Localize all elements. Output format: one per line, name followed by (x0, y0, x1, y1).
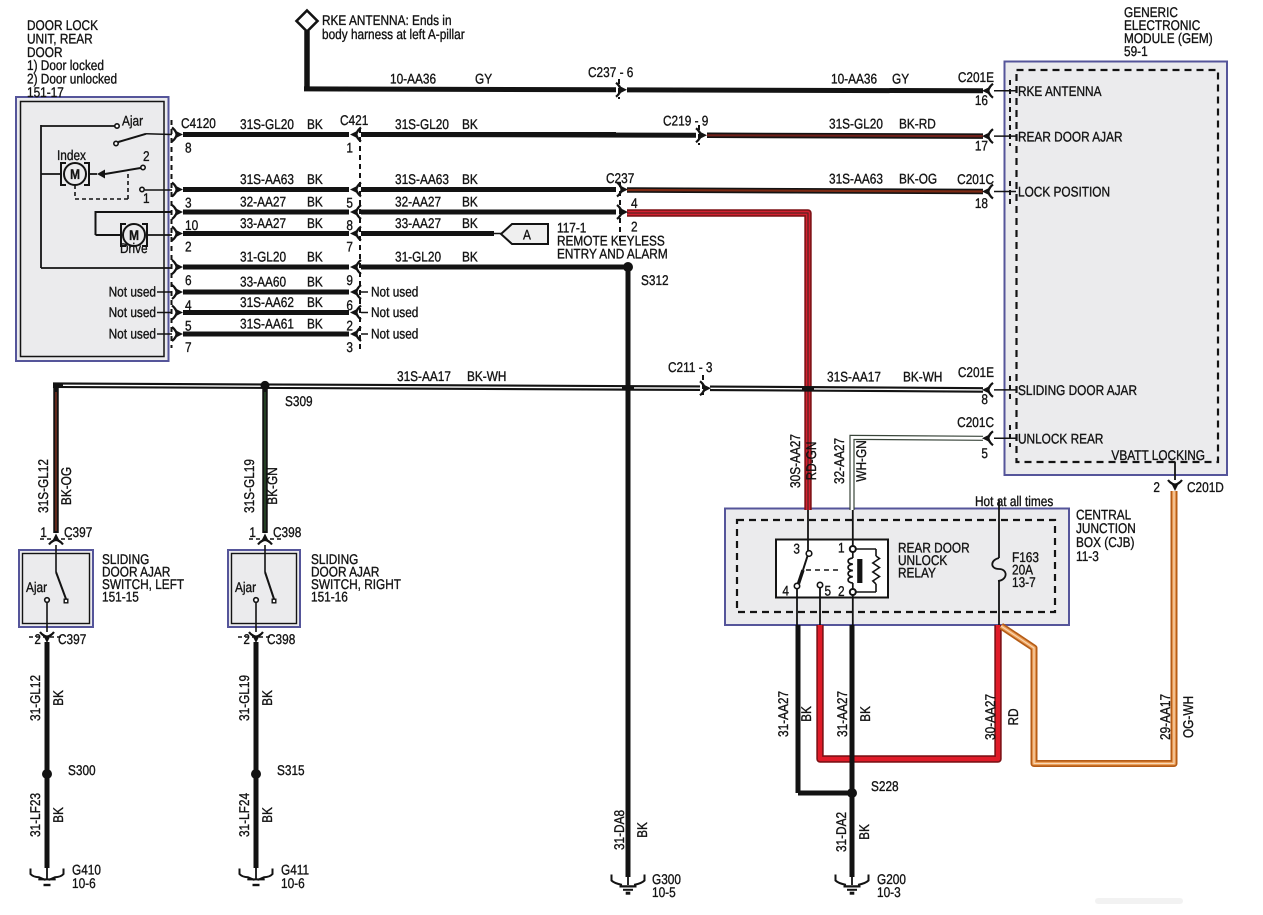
svg-text:31S-GL20: 31S-GL20 (395, 116, 449, 132)
svg-text:8: 8 (185, 140, 192, 156)
svg-text:BK: BK (307, 274, 323, 290)
svg-text:151-15: 151-15 (102, 589, 139, 605)
svg-text:13-7: 13-7 (1012, 574, 1036, 590)
svg-text:S300: S300 (68, 762, 96, 778)
svg-text:4: 4 (185, 297, 192, 313)
svg-text:5: 5 (346, 195, 353, 211)
svg-text:BK: BK (307, 249, 323, 265)
svg-text:7: 7 (185, 339, 192, 355)
svg-text:8: 8 (981, 391, 988, 407)
svg-text:BK: BK (856, 824, 872, 840)
svg-text:31-GL19: 31-GL19 (236, 675, 252, 721)
svg-text:VBATT LOCKING: VBATT LOCKING (1111, 447, 1205, 463)
svg-text:BK: BK (462, 215, 478, 231)
svg-text:31S-AA17: 31S-AA17 (827, 369, 881, 385)
svg-text:ENTRY AND ALARM: ENTRY AND ALARM (557, 246, 668, 262)
svg-text:31-LF24: 31-LF24 (236, 793, 252, 837)
svg-text:151-16: 151-16 (311, 589, 348, 605)
svg-text:2: 2 (243, 631, 250, 647)
svg-text:S312: S312 (641, 272, 669, 288)
svg-text:S315: S315 (277, 762, 305, 778)
svg-text:30S-AA27: 30S-AA27 (787, 434, 803, 488)
svg-text:32-AA27: 32-AA27 (395, 194, 441, 210)
svg-text:RD-GN: RD-GN (803, 442, 819, 481)
svg-text:31-GL12: 31-GL12 (27, 675, 43, 721)
svg-text:10-6: 10-6 (72, 875, 96, 891)
svg-text:11-3: 11-3 (1076, 548, 1099, 564)
svg-text:18: 18 (975, 195, 988, 211)
svg-text:4: 4 (631, 195, 638, 211)
svg-text:BK-WH: BK-WH (903, 369, 942, 385)
svg-text:31-AA27: 31-AA27 (775, 691, 791, 737)
svg-text:31-GL20: 31-GL20 (240, 249, 286, 265)
svg-text:31-AA27: 31-AA27 (834, 691, 850, 737)
svg-text:5: 5 (981, 445, 988, 461)
svg-text:31S-AA63: 31S-AA63 (829, 171, 883, 187)
svg-text:2: 2 (1153, 479, 1160, 495)
svg-text:RKE ANTENNA: RKE ANTENNA (1018, 83, 1102, 99)
svg-text:C201C: C201C (957, 171, 994, 187)
svg-text:31-GL20: 31-GL20 (395, 249, 441, 265)
svg-text:C398: C398 (273, 524, 301, 540)
svg-text:5: 5 (185, 318, 192, 334)
svg-text:10-3: 10-3 (877, 884, 901, 900)
svg-text:Hot at all times: Hot at all times (975, 493, 1053, 509)
svg-text:2: 2 (34, 631, 41, 647)
svg-text:1: 1 (838, 540, 845, 556)
svg-text:BK: BK (50, 807, 66, 823)
svg-text:BK: BK (50, 690, 66, 706)
svg-text:UNLOCK REAR: UNLOCK REAR (1018, 431, 1103, 447)
svg-text:RD: RD (1005, 708, 1021, 725)
svg-text:8: 8 (346, 217, 353, 233)
svg-text:10: 10 (185, 217, 198, 233)
svg-text:1: 1 (143, 190, 150, 206)
svg-text:WH-GN: WH-GN (853, 440, 869, 481)
svg-text:BK: BK (307, 116, 323, 132)
svg-text:BK: BK (307, 194, 323, 210)
svg-text:1: 1 (249, 524, 256, 540)
svg-text:10-AA36: 10-AA36 (390, 71, 436, 87)
svg-text:REAR DOOR AJAR: REAR DOOR AJAR (1018, 129, 1123, 145)
svg-text:1: 1 (40, 524, 47, 540)
svg-text:3: 3 (185, 195, 192, 211)
svg-text:Not used: Not used (371, 304, 418, 320)
svg-text:Not used: Not used (109, 304, 156, 320)
svg-text:6: 6 (346, 297, 353, 313)
svg-text:A: A (523, 227, 531, 243)
svg-text:C397: C397 (64, 524, 92, 540)
svg-text:2: 2 (346, 318, 353, 334)
svg-text:9: 9 (346, 272, 353, 288)
svg-text:C201C: C201C (957, 414, 994, 430)
svg-text:RELAY: RELAY (898, 565, 936, 581)
svg-text:BK: BK (462, 249, 478, 265)
svg-text:31-DA2: 31-DA2 (833, 812, 849, 852)
svg-text:31S-AA63: 31S-AA63 (395, 171, 449, 187)
svg-text:31S-AA63: 31S-AA63 (240, 171, 294, 187)
svg-text:151-17: 151-17 (27, 84, 64, 100)
svg-text:BK-WH: BK-WH (467, 368, 506, 384)
svg-text:C421: C421 (340, 112, 368, 128)
svg-text:Ajar: Ajar (26, 579, 47, 595)
svg-text:Not used: Not used (109, 326, 156, 342)
svg-text:BK: BK (634, 822, 650, 838)
svg-text:C219 - 9: C219 - 9 (663, 113, 709, 129)
svg-text:1: 1 (346, 140, 353, 156)
svg-text:body harness at left A-pillar: body harness at left A-pillar (322, 26, 465, 42)
svg-text:10-AA36: 10-AA36 (831, 71, 877, 87)
svg-text:BK: BK (462, 116, 478, 132)
svg-text:BK: BK (307, 294, 323, 310)
svg-text:BK-OG: BK-OG (58, 467, 74, 505)
svg-text:33-AA27: 33-AA27 (395, 215, 441, 231)
svg-text:10-6: 10-6 (281, 875, 305, 891)
svg-text:OG-WH: OG-WH (1180, 696, 1196, 738)
svg-text:BK: BK (462, 171, 478, 187)
svg-text:32-AA27: 32-AA27 (831, 438, 847, 484)
svg-text:C237 - 6: C237 - 6 (588, 64, 634, 80)
svg-text:32-AA27: 32-AA27 (240, 194, 286, 210)
svg-text:BK: BK (798, 706, 814, 722)
svg-text:Ajar: Ajar (122, 113, 143, 129)
svg-text:3: 3 (793, 541, 800, 557)
svg-text:BK: BK (259, 807, 275, 823)
svg-text:BK: BK (307, 171, 323, 187)
svg-text:BK: BK (857, 706, 873, 722)
svg-text:C201D: C201D (1187, 479, 1224, 495)
svg-text:C4120: C4120 (181, 115, 216, 131)
svg-text:31S-GL19: 31S-GL19 (241, 459, 257, 513)
svg-text:2: 2 (185, 239, 192, 255)
svg-text:17: 17 (975, 138, 988, 154)
svg-text:31S-AA62: 31S-AA62 (240, 294, 294, 310)
svg-text:C237: C237 (606, 170, 634, 186)
svg-text:C201E: C201E (958, 69, 994, 85)
svg-text:2: 2 (838, 583, 845, 599)
svg-text:10-5: 10-5 (652, 884, 676, 900)
svg-text:33-AA60: 33-AA60 (240, 274, 286, 290)
svg-text:BK: BK (259, 690, 275, 706)
svg-text:31S-GL12: 31S-GL12 (35, 459, 51, 513)
svg-text:C398: C398 (267, 631, 295, 647)
svg-text:31S-GL20: 31S-GL20 (240, 116, 294, 132)
svg-text:31-LF23: 31-LF23 (27, 793, 43, 837)
svg-text:LOCK POSITION: LOCK POSITION (1018, 184, 1110, 200)
svg-text:C397: C397 (58, 631, 86, 647)
svg-text:59-1: 59-1 (1124, 43, 1148, 59)
svg-text:S228: S228 (871, 778, 899, 794)
svg-text:C201E: C201E (958, 364, 994, 380)
svg-text:31S-AA61: 31S-AA61 (240, 316, 294, 332)
svg-text:33-AA27: 33-AA27 (240, 215, 286, 231)
svg-text:31S-GL20: 31S-GL20 (829, 116, 883, 132)
svg-text:5: 5 (825, 583, 832, 599)
svg-text:31S-AA17: 31S-AA17 (397, 368, 451, 384)
svg-text:Not used: Not used (371, 284, 418, 300)
svg-text:30-AA27: 30-AA27 (982, 694, 998, 740)
svg-text:SLIDING DOOR AJAR: SLIDING DOOR AJAR (1018, 382, 1137, 398)
svg-text:7: 7 (346, 239, 353, 255)
svg-text:BK: BK (307, 316, 323, 332)
svg-text:BK: BK (462, 194, 478, 210)
svg-text:BK-OG: BK-OG (899, 171, 937, 187)
svg-text:16: 16 (975, 92, 988, 108)
svg-text:6: 6 (185, 272, 192, 288)
svg-text:Not used: Not used (371, 326, 418, 342)
svg-text:2: 2 (143, 148, 150, 164)
svg-text:Index: Index (57, 147, 86, 163)
svg-text:BK-RD: BK-RD (899, 116, 936, 132)
svg-text:S309: S309 (285, 393, 313, 409)
svg-text:Not used: Not used (109, 284, 156, 300)
svg-text:4: 4 (782, 583, 789, 599)
svg-text:BK: BK (307, 215, 323, 231)
svg-text:31-DA8: 31-DA8 (611, 810, 627, 850)
svg-text:GY: GY (475, 71, 493, 87)
svg-text:29-AA17: 29-AA17 (1157, 694, 1173, 740)
svg-text:GY: GY (892, 71, 910, 87)
svg-text:Ajar: Ajar (235, 579, 256, 595)
svg-text:BK-GN: BK-GN (264, 467, 280, 504)
svg-text:M: M (70, 166, 80, 182)
svg-text:Drive: Drive (120, 240, 148, 256)
svg-text:3: 3 (346, 339, 353, 355)
svg-text:C211 - 3: C211 - 3 (668, 359, 713, 375)
